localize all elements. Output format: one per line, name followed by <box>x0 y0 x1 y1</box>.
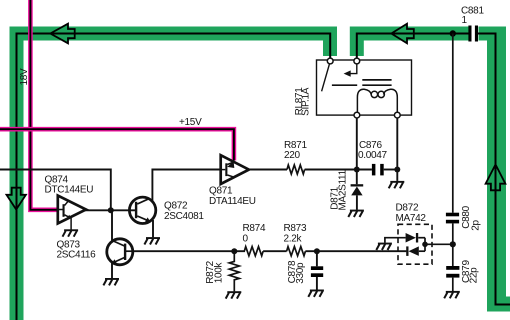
relay actuation arrow <box>350 64 357 74</box>
ground below relay pin 4 <box>389 181 405 188</box>
relay switch arm <box>322 64 330 92</box>
svg-text:2.2k: 2.2k <box>284 234 303 245</box>
wire: highlighted green bus, left vertical + top horizontal into relay pin 1 <box>17 34 331 320</box>
ground below Q872 <box>144 237 160 244</box>
relay pin 3 terminal circle <box>354 112 360 118</box>
wire: black core of green bus (relay pin 2 to C881) <box>357 34 469 59</box>
wire: magenta +15V line into Q871 emitter <box>0 129 234 160</box>
wire: C878 junction down <box>316 251 318 266</box>
diode D871 triangle <box>351 187 362 196</box>
diode D872 (MA742) dashed package box <box>398 224 432 264</box>
ground below C878 <box>308 290 324 297</box>
svg-text:0: 0 <box>243 234 249 245</box>
svg-text:+15V: +15V <box>179 117 202 128</box>
svg-text:2p: 2p <box>470 219 481 230</box>
wire: D872 common vertical <box>424 238 426 252</box>
wire: Q873 collector up to junction <box>111 210 113 241</box>
ground at D872 left branch <box>376 243 392 250</box>
svg-text:R874: R874 <box>243 223 266 234</box>
svg-text:DTA114EU: DTA114EU <box>209 196 256 207</box>
wire: R871 to junction and C876 <box>305 169 372 171</box>
wire: black core of green bus (left + top, into relay pin 1) <box>17 34 331 320</box>
arrow on second bus segment pointing left <box>391 24 414 44</box>
arrow on top bus pointing left <box>50 24 74 44</box>
relay fixed contact lower <box>362 84 391 86</box>
wire: Q871 output to R871 <box>249 169 287 171</box>
wire: D871 anode to ground <box>356 195 358 209</box>
diode D871 (MA2S111) cathode bar <box>351 184 364 186</box>
arrow on right bus pointing up <box>486 165 506 191</box>
arrow on left bus pointing down <box>7 188 26 210</box>
svg-text:DTC144EU: DTC144EU <box>45 185 94 196</box>
wire: highlighted green bus right of C881 <box>479 27 507 41</box>
relay pin 4 terminal circle <box>394 112 400 118</box>
svg-text:Q871: Q871 <box>209 185 233 196</box>
wire: D872 upper to common <box>418 237 425 239</box>
wire: relay pin 3 down through junction to D871 <box>356 118 358 184</box>
wire: R873 to D872 <box>305 250 406 252</box>
wire: highlighted green bus from relay pin 2 up and right to C881 <box>357 34 469 57</box>
capacitor C879 bar 1 <box>446 266 459 270</box>
wire: C880 to C879 <box>452 223 454 266</box>
relay pin 1 terminal circle <box>327 58 333 64</box>
wire: black line from left edge to junction above Q874 output <box>0 170 111 211</box>
ground below R872 <box>226 291 242 298</box>
capacitor C878 bar 1 <box>311 266 323 270</box>
wire: lower line from Q873 base to R874 <box>134 250 246 252</box>
svg-text:2SC4116: 2SC4116 <box>57 250 97 261</box>
ground below Q873 <box>103 278 119 285</box>
node: junction dot at C876 right <box>394 167 400 173</box>
capacitor C881 bar 2 <box>475 26 478 42</box>
ground below Q874 <box>63 229 79 236</box>
resistor R873 zigzag <box>287 247 306 256</box>
relay coil <box>357 89 397 112</box>
transistor Q871 (DTA114EU) triangle symbol <box>221 155 249 184</box>
ground below C879 <box>444 291 460 298</box>
ground below D871 <box>348 210 364 217</box>
wire: magenta 18V line down left side into Q874 input <box>30 0 57 210</box>
wire: R874 to R873 <box>263 250 287 252</box>
wire: Q872 emitter down to ground <box>152 220 154 237</box>
svg-text:100k: 100k <box>214 262 225 284</box>
resistor R871 zigzag <box>287 165 305 174</box>
capacitor C879 bar 2 <box>446 274 459 278</box>
resistor R874 zigzag <box>244 247 263 256</box>
capacitor C878 bar 2 <box>311 273 323 277</box>
svg-text:2SC4081: 2SC4081 <box>164 211 204 222</box>
wire: Q874 output to Q872 base <box>85 209 136 211</box>
svg-text:22p: 22p <box>469 267 480 284</box>
svg-text:220: 220 <box>284 150 301 161</box>
wire: C876 to junction at relay pin 4 line <box>384 169 398 171</box>
capacitor C876 bar 2 <box>380 164 384 176</box>
resistor R872 vertical zigzag <box>229 251 239 283</box>
wire: highlighted green bus right vertical <box>487 27 506 312</box>
wire: black core of green bus (C881 to bottom right exit) <box>478 34 510 305</box>
node: junction dot at Q874 output <box>108 207 114 213</box>
node: junction dot on bus before C881 <box>450 30 456 36</box>
wire: Q872 collector up and right to Q871 base <box>152 170 220 201</box>
wire: highlighted green bus bottom-right exit <box>487 297 510 312</box>
svg-text:Q872: Q872 <box>164 200 188 211</box>
wire: D872 upper diode anode line to ground branch <box>385 238 406 243</box>
capacitor C881 bar 1 <box>468 26 471 42</box>
wire: relay pin 4 down to ground <box>396 118 398 181</box>
wire: C878 to ground <box>316 277 318 290</box>
node: junction dot below relay pin 3 <box>354 167 360 173</box>
svg-text:SIP.1A: SIP.1A <box>301 87 312 116</box>
diode D872 upper: cathode bar <box>416 233 418 243</box>
wire: Q873 emitter down to ground <box>111 263 113 278</box>
node: junction dot at D872 common <box>422 242 428 248</box>
diode D872 upper: triangle pointing right <box>406 233 416 243</box>
wire: C879 to ground <box>452 278 454 292</box>
svg-text:330p: 330p <box>295 262 306 284</box>
svg-text:18V: 18V <box>19 68 30 86</box>
svg-text:MA742: MA742 <box>396 213 427 224</box>
transistor Q872 (2SC4081) <box>129 197 155 223</box>
svg-text:1: 1 <box>462 15 468 26</box>
diode D872 lower: cathode bar <box>406 246 408 256</box>
relay RL871 SIP-1A box <box>317 60 412 115</box>
wire: R872 to ground <box>233 284 235 292</box>
svg-text:R873: R873 <box>284 223 307 234</box>
capacitor C880 bar 2 <box>446 220 459 224</box>
node: junction dot at D872 output / C879 <box>450 241 456 247</box>
relay fixed contact upper <box>362 79 391 81</box>
diode D872 lower: triangle pointing left <box>409 246 419 256</box>
transistor Q873 (2SC4116) <box>107 239 134 265</box>
svg-text:0.0047: 0.0047 <box>358 150 388 161</box>
node: junction dot at R872 <box>231 248 237 254</box>
node: junction dot at C878 <box>314 248 320 254</box>
capacitor C876 bar 1 <box>372 164 376 176</box>
relay moving contact line <box>332 84 357 86</box>
wire: right column from bus junction down to C880 <box>452 34 454 213</box>
wire: D872 lower to common <box>419 250 425 252</box>
relay pin 2 terminal circle <box>354 58 360 64</box>
transistor Q874 (DTC144EU) triangle symbol <box>58 196 86 230</box>
wire: D872 output to right column <box>425 243 453 245</box>
svg-text:MA2S111: MA2S111 <box>337 169 348 210</box>
capacitor C880 bar 1 <box>446 213 459 217</box>
